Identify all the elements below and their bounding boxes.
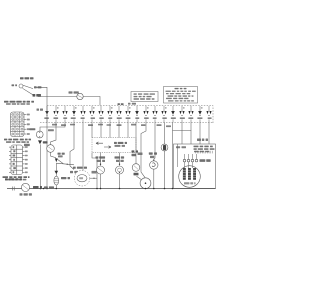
connector P1 pin labels bbox=[27, 114, 30, 135]
timer cam switch contact 19 bbox=[206, 106, 211, 123]
connector P1 (grid block) bbox=[11, 112, 27, 137]
rinse aid dispenser solenoid bbox=[47, 123, 56, 158]
detergent dispenser solenoid bbox=[24, 123, 65, 189]
label above motor box bbox=[197, 139, 201, 142]
power supply label bbox=[4, 101, 34, 105]
dispenser actuator bbox=[149, 123, 158, 189]
heater relay / thermal cutout bbox=[132, 123, 142, 180]
neutral bus wire bbox=[7, 188, 216, 190]
selector / hi-limit dashed box bbox=[92, 138, 136, 153]
bus junctions bbox=[40, 188, 174, 190]
timer cam switch contact 10 bbox=[125, 106, 130, 123]
connector P2 label bbox=[3, 176, 30, 180]
timer cam switch contact 11 bbox=[135, 106, 139, 123]
door switch S1 (upper left) bbox=[12, 77, 42, 96]
main motor box bbox=[174, 144, 216, 189]
water inlet valve solenoid bbox=[115, 153, 125, 189]
drain motor M3 bbox=[138, 123, 151, 189]
note box (right) bbox=[164, 87, 198, 104]
wire jog to motor box bbox=[173, 131, 192, 145]
main motor M4 bbox=[179, 162, 201, 187]
timer T1 dashed enclosure bbox=[40, 106, 213, 125]
timer cam switch contact 15 bbox=[171, 106, 176, 123]
timer cam switch contact 6 bbox=[89, 106, 95, 123]
wire to capacitor bbox=[55, 163, 57, 176]
timer motor M1 bbox=[69, 91, 84, 99]
wire label GRY bbox=[37, 109, 40, 111]
door switch S2 (lower) bbox=[5, 178, 54, 195]
timer cam switch contact 2 bbox=[53, 106, 58, 123]
wash pump motor M2 bbox=[70, 167, 97, 186]
wire color labels below timer bbox=[52, 124, 171, 127]
motor info text block bbox=[176, 146, 215, 153]
timer cam switch contact 17 bbox=[188, 106, 193, 123]
timer cam switch contact 3 bbox=[62, 106, 67, 123]
wire: left main drop L1 bbox=[46, 97, 48, 189]
timer cam switch contact 12 bbox=[143, 106, 148, 123]
wire: door switch feed (upper) bbox=[36, 87, 100, 105]
wire from contact 4 to wash motor bbox=[70, 123, 74, 170]
note box (left) bbox=[131, 92, 158, 102]
timer cam switch contact 13 bbox=[152, 106, 157, 123]
timer cam switch contact 14 bbox=[161, 106, 166, 123]
wires into motor box bbox=[182, 123, 209, 145]
timer cam switch contact 5 bbox=[80, 106, 85, 123]
wire drop (right of sensor) bbox=[172, 123, 174, 189]
connector P2 (grid block) bbox=[9, 145, 25, 175]
wire from contact 5 to wash motor bbox=[82, 123, 84, 171]
turbidity sensor bbox=[161, 123, 168, 189]
timer cam switch contact 7 bbox=[98, 106, 103, 123]
timer cam switch contact 8 bbox=[107, 106, 112, 123]
connector P2 pin marks bbox=[13, 146, 16, 173]
timer cam switch contact 4 bbox=[71, 106, 77, 123]
timer cam switch contact 16 bbox=[179, 106, 184, 123]
timer cam switch contact 18 bbox=[197, 106, 202, 123]
timer cam switch contact 9 bbox=[116, 106, 121, 123]
thermostat switch bbox=[55, 153, 74, 165]
wires into selector box bbox=[92, 123, 128, 138]
capacitor C1 bbox=[54, 171, 70, 189]
motor terminal strip hatch bbox=[196, 151, 213, 154]
wire below selector box bbox=[92, 153, 97, 189]
drain solenoid bbox=[96, 153, 106, 189]
connector P1 label bbox=[4, 139, 31, 143]
small labels above timer line bbox=[118, 103, 137, 105]
motor terminals bbox=[183, 154, 210, 162]
timer cam switch contact 1 bbox=[44, 106, 49, 123]
wire inside motor box bbox=[177, 144, 179, 167]
